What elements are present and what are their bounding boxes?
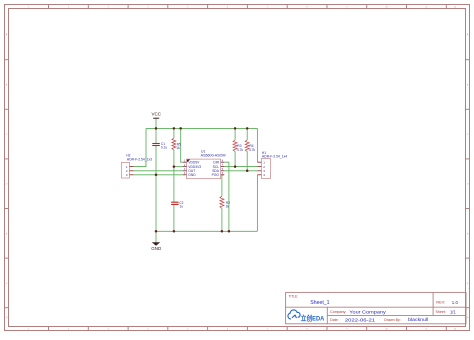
wire H2 pin 3 to U1 GND: [134, 174, 183, 176]
resistor R5 1k: [172, 138, 181, 150]
wire rail to U1 VDD5V pin: [181, 128, 183, 162]
svg-text:A: A: [6, 33, 8, 36]
svg-text:D: D: [6, 184, 8, 186]
svg-text:D: D: [467, 184, 469, 186]
svg-text:E: E: [467, 233, 469, 235]
capacitor C1 0.1u: [152, 142, 167, 150]
junction VCC rail / C1: [155, 127, 158, 130]
junction VCC rail / R5: [173, 127, 176, 130]
junction SCL / R3: [234, 165, 237, 168]
connector H2 HDR-F-2.54_1x3: [121, 154, 152, 178]
svg-text:4.7k: 4.7k: [249, 148, 255, 152]
svg-text:B: B: [6, 85, 8, 87]
wire rail to H2 pin 1 (VCC): [134, 128, 146, 166]
wire VCC top rail: [146, 127, 257, 129]
svg-text:E: E: [6, 233, 8, 235]
wire U1 PGO to R2 top: [222, 175, 224, 196]
svg-text:1k: 1k: [226, 205, 230, 209]
wire H1 pin 4 to GND rail: [256, 175, 258, 232]
wire VDD3V3 node to U1 pin 2: [174, 166, 183, 168]
svg-text:Company:: Company:: [330, 310, 346, 314]
svg-text:G: G: [467, 317, 469, 319]
svg-text:1.0: 1.0: [452, 300, 459, 305]
svg-text:F: F: [6, 283, 8, 285]
wire U1 DIR to GND rail: [224, 162, 229, 231]
svg-text:REV:: REV:: [436, 300, 445, 305]
wire C1 bottom to GND rail: [155, 146, 157, 232]
capacitor C2 1u: [171, 201, 184, 209]
svg-text:TITLE:: TITLE:: [289, 294, 299, 298]
wire U1 SDA to H1 pin 3: [224, 170, 257, 172]
svg-text:1k: 1k: [176, 146, 180, 150]
junction GND rail / C2: [173, 230, 176, 233]
wire R5 bottom to VDD3V3 node: [173, 150, 175, 167]
svg-text:GND: GND: [151, 246, 162, 251]
svg-text:A: A: [467, 33, 469, 36]
op-amp U1 AS5600-ASOM (magnetic encoder IC): [183, 150, 226, 179]
svg-text:blacknull: blacknull: [408, 317, 428, 322]
junction VCC rail / VDD5V: [179, 127, 182, 130]
connector H1 HDR-F-2.54_1x4: [257, 151, 287, 179]
wire rail to R4 top: [246, 128, 248, 140]
wire VDD3V3 node to C2 top: [173, 167, 175, 202]
svg-text:Drawn By:: Drawn By:: [384, 318, 401, 322]
svg-text:立创EDA: 立创EDA: [301, 313, 325, 322]
junction GND wire / C1 branch: [155, 174, 158, 177]
svg-text:4.7k: 4.7k: [237, 148, 243, 152]
svg-text:1u: 1u: [180, 205, 184, 209]
junction GND rail / GND flag: [155, 230, 158, 233]
wire R3 bottom to SCL: [234, 152, 236, 167]
svg-text:Sheet:: Sheet:: [436, 310, 446, 314]
svg-text:2022-06-21: 2022-06-21: [345, 317, 376, 322]
wire rail right end to H1 pin 1 (VCC): [256, 128, 258, 162]
svg-text:VCC: VCC: [151, 112, 161, 117]
ground flag GND: [151, 242, 162, 251]
svg-text:Date:: Date:: [330, 318, 339, 322]
svg-text:C: C: [6, 134, 8, 136]
resistor R4 4.7k: [245, 140, 255, 152]
svg-text:GND: GND: [188, 173, 196, 177]
svg-text:PGO: PGO: [212, 173, 220, 177]
wire VCC flag stem to rail and C1 top: [155, 118, 157, 143]
junction VCC rail / R4: [246, 127, 249, 130]
junction GND rail / R2: [221, 230, 224, 233]
svg-text:1/1: 1/1: [450, 310, 456, 315]
wire GND bottom rail: [156, 230, 257, 232]
junction GND rail / DIR: [228, 230, 231, 233]
svg-text:B: B: [467, 85, 469, 87]
junction VDD3V3 node: [173, 165, 176, 168]
svg-text:HDR-F-2.54_1x3: HDR-F-2.54_1x3: [127, 158, 152, 162]
wire U1 SCL to H1 pin 2: [224, 166, 257, 168]
wire GND rail to GND flag: [155, 231, 157, 242]
junction VCC rail / R3: [234, 127, 237, 130]
wire R2 bottom to GND rail: [221, 208, 223, 231]
svg-text:VDD5V: VDD5V: [188, 161, 200, 165]
svg-text:Your Company: Your Company: [349, 310, 387, 315]
svg-text:HDR-F-2.54_1x4: HDR-F-2.54_1x4: [262, 155, 287, 159]
svg-text:F: F: [467, 283, 469, 285]
resistor R2 1k: [220, 196, 230, 208]
junction SDA / R4: [246, 170, 249, 173]
wire R4 bottom to SDA: [246, 152, 248, 171]
wire C2 bottom to GND rail: [173, 205, 175, 232]
svg-text:DIR: DIR: [213, 161, 219, 165]
wire rail to R3 top: [234, 128, 236, 140]
svg-text:AS5600-ASOM: AS5600-ASOM: [201, 154, 226, 158]
svg-text:Sheet_1: Sheet_1: [310, 300, 329, 306]
svg-text:G: G: [6, 317, 8, 319]
svg-text:0.1u: 0.1u: [161, 146, 167, 150]
resistor R3 4.7k: [233, 140, 243, 152]
power flag VCC: [151, 112, 161, 119]
wire H2 pin 2 to U1 OUT: [134, 170, 183, 172]
wire rail to R5 top: [173, 128, 175, 138]
svg-text:C: C: [467, 134, 469, 136]
